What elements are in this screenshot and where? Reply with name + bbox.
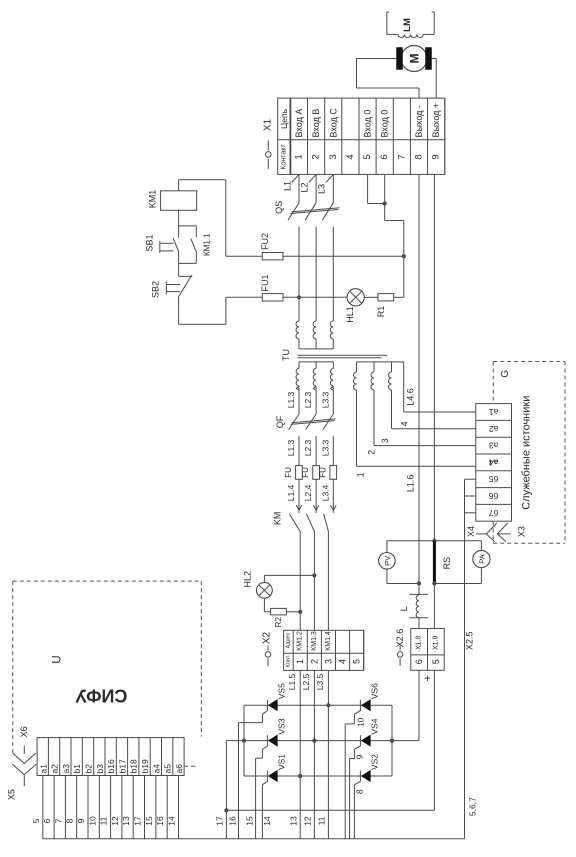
- svg-text:L3.5: L3.5: [315, 673, 325, 690]
- svg-text:9: 9: [431, 154, 442, 159]
- svg-text:KM: KM: [272, 512, 282, 526]
- svg-text:X2.6: X2.6: [395, 629, 405, 648]
- svg-text:1: 1: [356, 472, 366, 477]
- svg-text:a4: a4: [151, 764, 161, 774]
- svg-text:L2: L2: [299, 182, 309, 192]
- svg-text:PA: PA: [477, 554, 486, 563]
- svg-text:а4: а4: [489, 457, 499, 467]
- svg-text:L1: L1: [282, 181, 292, 191]
- svg-text:5: 5: [352, 659, 362, 664]
- svg-text:КМ1.2: КМ1.2: [297, 631, 304, 651]
- svg-text:7: 7: [396, 154, 407, 159]
- svg-text:Служебные источники: Служебные источники: [520, 396, 532, 510]
- svg-text:a5: a5: [163, 764, 173, 774]
- svg-text:3: 3: [380, 438, 390, 443]
- svg-text:Цепь: Цепь: [279, 108, 289, 129]
- svg-text:КМ1.4: КМ1.4: [325, 631, 332, 651]
- svg-text:3: 3: [328, 154, 339, 159]
- svg-text:a3: a3: [61, 764, 71, 774]
- svg-text:1: 1: [294, 154, 305, 159]
- svg-text:VS4: VS4: [370, 718, 380, 734]
- svg-text:FU2: FU2: [260, 233, 270, 250]
- svg-text:X5: X5: [7, 789, 17, 800]
- svg-text:а1: а1: [489, 407, 499, 417]
- svg-text:8: 8: [65, 818, 75, 823]
- svg-text:17: 17: [133, 816, 143, 826]
- svg-text:Выход +: Выход +: [431, 103, 441, 138]
- svg-text:FU1: FU1: [260, 274, 270, 291]
- svg-text:X2.5: X2.5: [465, 632, 475, 651]
- svg-text:L1.5: L1.5: [287, 673, 297, 690]
- svg-text:4: 4: [345, 154, 356, 159]
- svg-text:15: 15: [245, 816, 255, 826]
- svg-text:U: U: [52, 655, 64, 663]
- svg-text:11: 11: [99, 816, 109, 825]
- svg-text:9: 9: [76, 818, 86, 823]
- svg-text:10: 10: [87, 816, 97, 826]
- svg-text:L3: L3: [317, 184, 327, 194]
- svg-text:L2.5: L2.5: [301, 673, 311, 690]
- svg-text:2: 2: [309, 659, 319, 664]
- svg-text:X6: X6: [19, 726, 29, 737]
- svg-text:5: 5: [362, 154, 373, 159]
- svg-text:b1: b1: [72, 764, 82, 774]
- svg-text:SB2: SB2: [150, 281, 160, 298]
- svg-text:4: 4: [399, 421, 409, 426]
- svg-text:Вход С: Вход С: [328, 108, 338, 138]
- svg-text:VS6: VS6: [370, 683, 380, 699]
- svg-text:X4: X4: [466, 526, 476, 537]
- svg-text:11: 11: [317, 816, 327, 825]
- svg-text:СИФУ: СИФУ: [75, 686, 128, 706]
- svg-text:4: 4: [338, 659, 348, 664]
- svg-text:R2: R2: [274, 617, 283, 628]
- svg-text:б7: б7: [489, 508, 499, 518]
- svg-text:6: 6: [414, 659, 424, 664]
- svg-text:Контакт: Контакт: [281, 144, 288, 170]
- svg-text:X2: X2: [261, 631, 272, 644]
- svg-text:KM1: KM1: [148, 190, 158, 209]
- svg-text:L2.3: L2.3: [303, 391, 313, 408]
- svg-text:б5: б5: [489, 474, 499, 484]
- svg-text:16: 16: [228, 816, 238, 826]
- svg-text:R1: R1: [376, 306, 386, 318]
- svg-text:a1: a1: [38, 764, 48, 774]
- svg-text:LM: LM: [402, 18, 413, 32]
- svg-text:7: 7: [53, 818, 63, 823]
- svg-text:VS2: VS2: [370, 754, 380, 770]
- svg-text:L1.4: L1.4: [286, 484, 296, 501]
- svg-text:L: L: [399, 606, 409, 611]
- svg-text:b3: b3: [95, 764, 105, 774]
- svg-text:Вход В: Вход В: [311, 109, 321, 138]
- svg-text:PV: PV: [383, 556, 392, 566]
- svg-text:VS3: VS3: [277, 718, 287, 734]
- svg-text:b17: b17: [117, 759, 127, 773]
- svg-text:G: G: [500, 370, 511, 378]
- svg-text:14: 14: [167, 816, 177, 826]
- svg-text:M: M: [408, 54, 422, 64]
- svg-text:TU: TU: [281, 349, 291, 361]
- svg-text:5,6,7: 5,6,7: [468, 797, 478, 816]
- svg-text:Вход 0: Вход 0: [380, 110, 390, 138]
- svg-text:13: 13: [288, 816, 298, 826]
- svg-text:a6: a6: [174, 764, 184, 774]
- svg-text:Выход -: Выход -: [414, 105, 424, 137]
- svg-text:5: 5: [31, 818, 41, 823]
- svg-text:6: 6: [379, 154, 390, 159]
- svg-text:3: 3: [323, 659, 333, 664]
- svg-text:L1.6: L1.6: [406, 475, 416, 493]
- svg-text:SB1: SB1: [145, 234, 155, 251]
- svg-text:16: 16: [155, 816, 165, 826]
- svg-text:a2: a2: [50, 764, 60, 774]
- svg-text:14: 14: [262, 816, 272, 826]
- svg-text:б6: б6: [489, 491, 499, 501]
- svg-text:X3: X3: [516, 526, 526, 537]
- svg-text:FU: FU: [318, 467, 327, 478]
- svg-text:15: 15: [144, 816, 154, 826]
- svg-text:b18: b18: [129, 759, 139, 773]
- svg-text:6: 6: [42, 818, 52, 823]
- svg-text:17: 17: [215, 816, 225, 826]
- svg-text:·X1.8: ·X1.8: [416, 635, 423, 652]
- svg-text:FU: FU: [301, 467, 310, 478]
- svg-text:Адрес: Адрес: [285, 632, 291, 648]
- svg-text:L2.4: L2.4: [303, 484, 313, 501]
- svg-text:L1.3: L1.3: [286, 439, 296, 456]
- svg-text:X1: X1: [263, 118, 274, 131]
- svg-text:L2.3: L2.3: [303, 439, 313, 456]
- svg-text:RS: RS: [442, 557, 452, 570]
- svg-text:а2: а2: [489, 424, 499, 434]
- svg-text:8: 8: [414, 154, 425, 159]
- svg-text:·X1.9: ·X1.9: [432, 635, 439, 652]
- svg-text:Вход 0: Вход 0: [363, 110, 373, 138]
- svg-text:Вход А: Вход А: [294, 109, 304, 138]
- svg-text:2: 2: [311, 154, 322, 159]
- svg-text:FU: FU: [284, 467, 293, 478]
- svg-text:13: 13: [121, 816, 131, 826]
- svg-text:12: 12: [303, 816, 313, 826]
- svg-text:HL2: HL2: [242, 571, 252, 588]
- svg-text:b16: b16: [106, 759, 116, 773]
- svg-text:L1.3: L1.3: [286, 391, 296, 408]
- svg-text:2: 2: [367, 450, 377, 455]
- svg-text:QF: QF: [275, 415, 285, 428]
- svg-text:5: 5: [431, 659, 441, 664]
- svg-text:L3.4: L3.4: [320, 484, 330, 501]
- svg-text:КМ1.3: КМ1.3: [311, 631, 318, 651]
- svg-text:L4.6: L4.6: [406, 388, 416, 406]
- svg-text:L3.3: L3.3: [320, 391, 330, 408]
- svg-text:Конт.: Конт.: [285, 654, 291, 667]
- svg-text:1: 1: [295, 659, 305, 664]
- svg-text:8: 8: [355, 789, 365, 794]
- svg-text:а3: а3: [489, 441, 499, 451]
- svg-text:VS1: VS1: [277, 754, 287, 770]
- svg-text:b19: b19: [140, 759, 150, 773]
- svg-text:+: +: [422, 675, 434, 681]
- svg-text:9: 9: [355, 754, 365, 759]
- svg-text:10: 10: [356, 717, 366, 727]
- svg-text:L3.3: L3.3: [320, 439, 330, 456]
- svg-text:КМ1.1: КМ1.1: [203, 233, 212, 256]
- svg-text:QS: QS: [274, 201, 284, 214]
- svg-text:VS5: VS5: [277, 683, 287, 699]
- svg-text:HL1: HL1: [345, 306, 355, 323]
- svg-text:b2: b2: [84, 764, 94, 774]
- svg-text:12: 12: [110, 816, 120, 826]
